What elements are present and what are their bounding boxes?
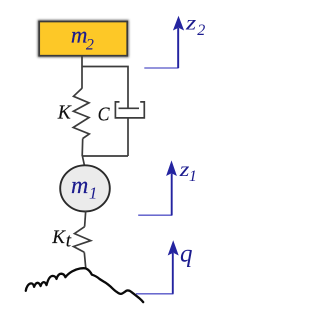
- q reference step: [136, 254, 173, 294]
- svg-text:K: K: [57, 103, 72, 124]
- svg-text:2: 2: [86, 37, 94, 54]
- z2 arrow shaft: [177, 28, 179, 68]
- wire Kt to ground: [84, 252, 86, 268]
- svg-text:K: K: [51, 227, 66, 248]
- z1 arrow head: [166, 160, 177, 176]
- wire m1 to spring Kt: [85, 211, 86, 227]
- spring K: [73, 88, 89, 138]
- mass m2 block: [39, 22, 127, 56]
- svg-text:m: m: [71, 173, 88, 199]
- svg-text:t: t: [66, 231, 72, 252]
- spring Kt: [74, 227, 91, 253]
- wire spring bottom junction: [82, 139, 128, 166]
- mass m2 block shadow: [39, 21, 128, 56]
- wire branch to damper: [82, 67, 128, 108]
- q arrow head: [168, 240, 179, 255]
- wire from m2 to spring K: [81, 56, 83, 89]
- ground terrain curve: [26, 268, 143, 302]
- damper C cylinder: [115, 102, 144, 118]
- svg-text:2: 2: [197, 22, 205, 39]
- svg-text:z: z: [185, 12, 197, 34]
- z1 reference step: [138, 174, 172, 215]
- z2 arrow head: [173, 16, 184, 31]
- damper bottom rod: [127, 118, 129, 156]
- svg-text:1: 1: [189, 168, 197, 185]
- svg-text:q: q: [180, 241, 193, 268]
- svg-text:C: C: [98, 103, 110, 125]
- svg-text:1: 1: [89, 184, 98, 203]
- z1 arrow shaft: [171, 174, 173, 216]
- mass m1 circle: [60, 165, 110, 211]
- damper C piston: [119, 107, 140, 109]
- q arrow shaft: [172, 253, 174, 294]
- z2 reference step: [144, 30, 178, 68]
